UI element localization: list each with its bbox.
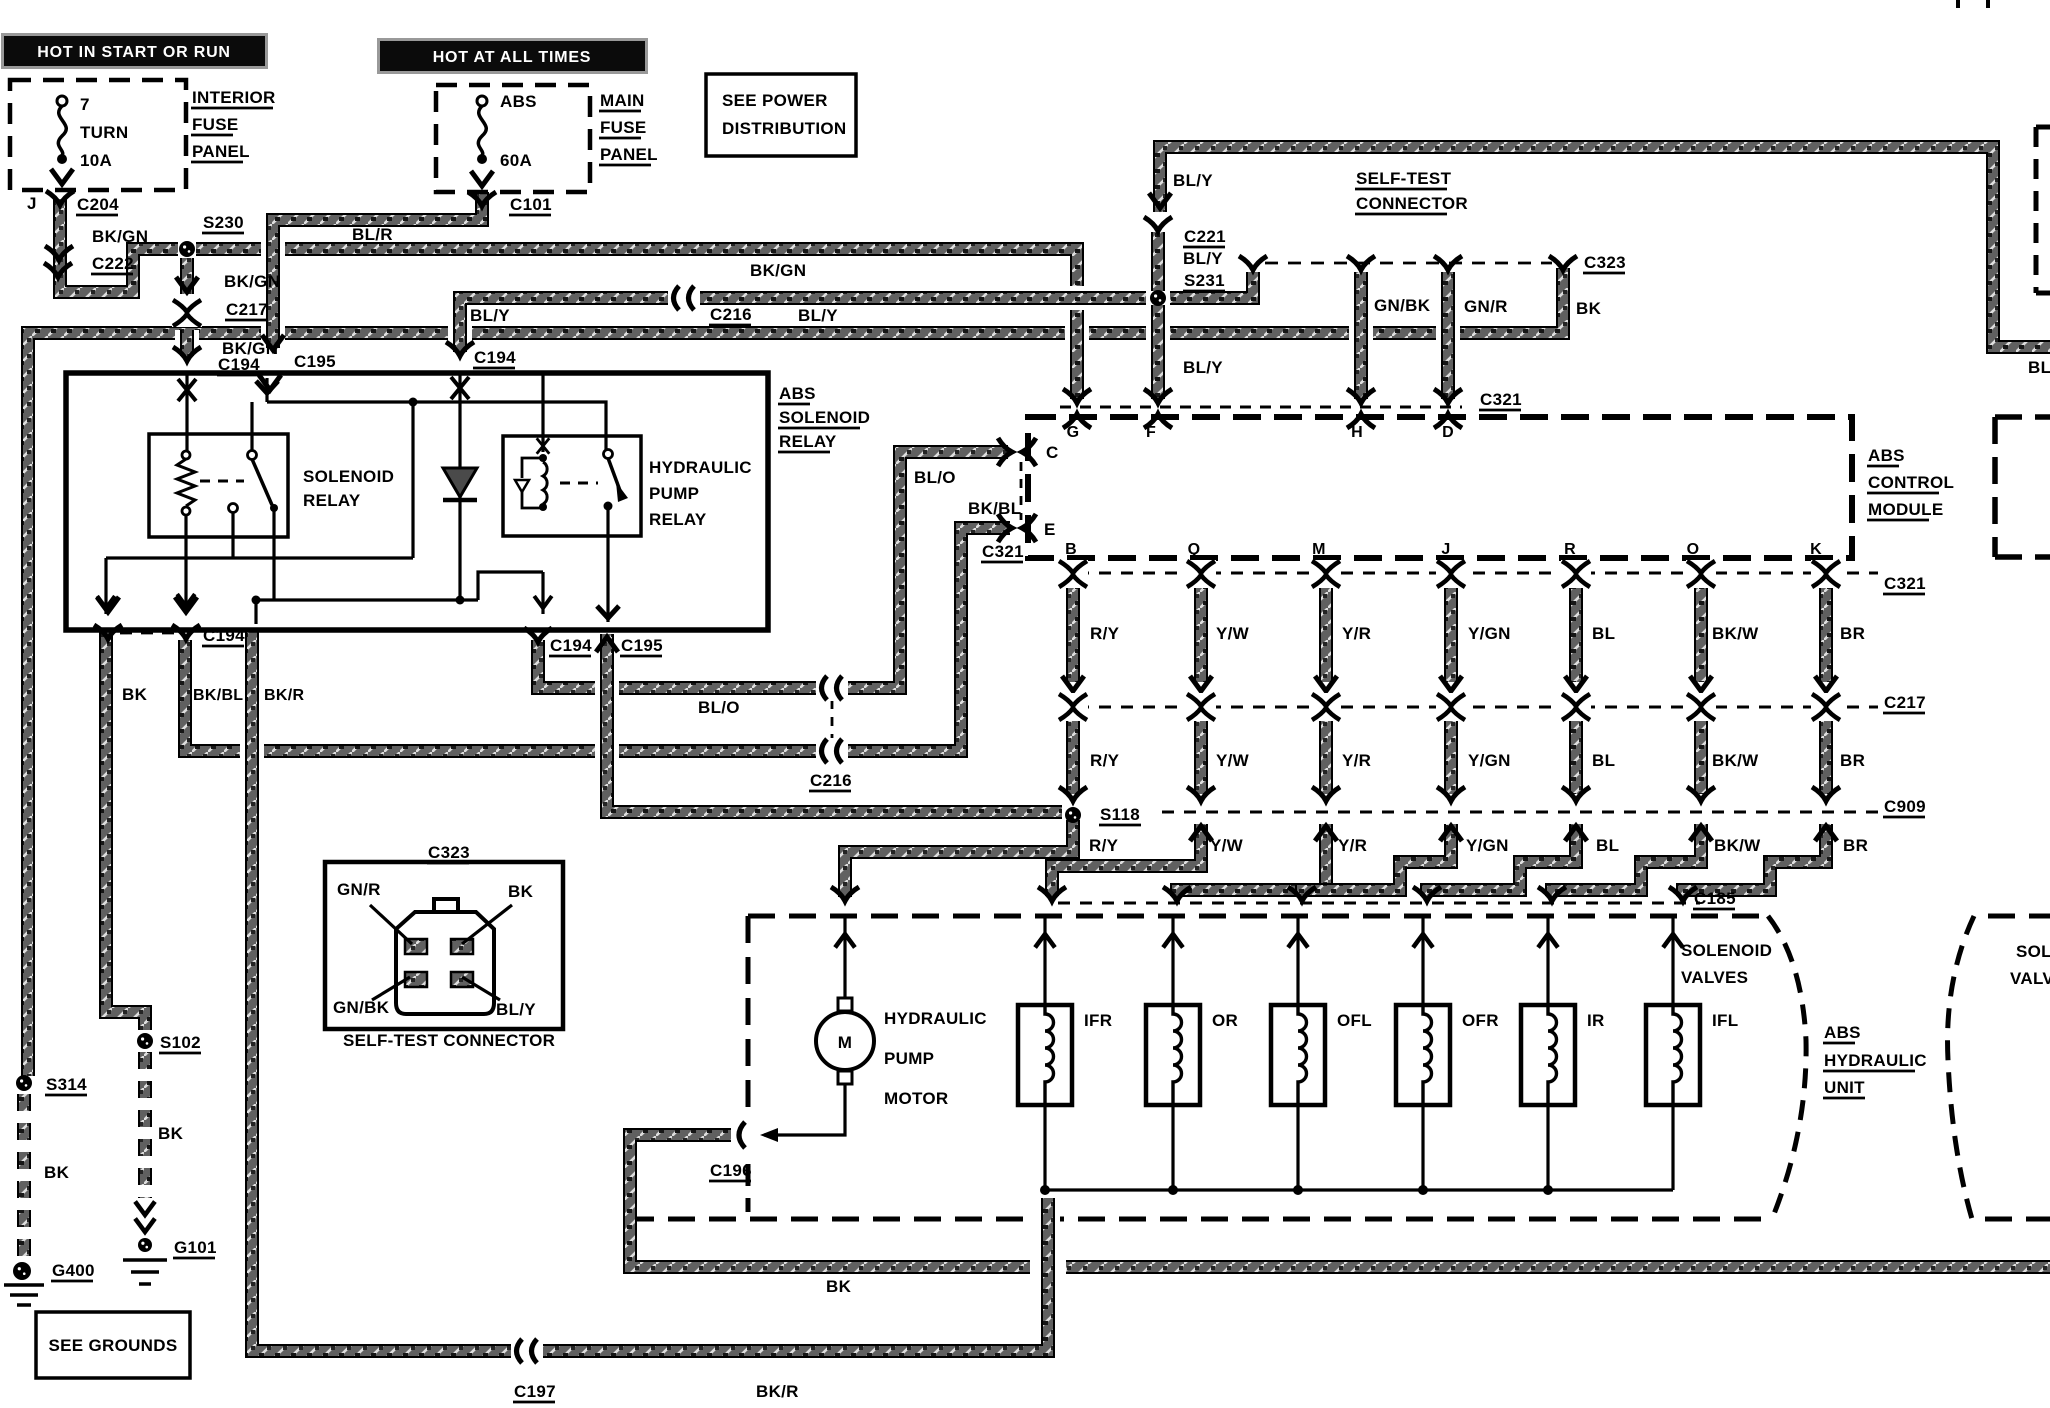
svg-text:SEE POWER: SEE POWER bbox=[722, 91, 828, 110]
svg-text:BL/Y: BL/Y bbox=[1183, 358, 1223, 377]
svg-text:C216: C216 bbox=[710, 305, 752, 324]
svg-text:S118: S118 bbox=[1100, 805, 1140, 824]
svg-text:C195: C195 bbox=[621, 636, 663, 655]
svg-text:C196: C196 bbox=[710, 1161, 752, 1180]
svg-text:10A: 10A bbox=[80, 151, 112, 170]
svg-text:DISTRIBUTION: DISTRIBUTION bbox=[722, 119, 846, 138]
svg-text:RELAY: RELAY bbox=[303, 491, 361, 510]
svg-text:OFR: OFR bbox=[1462, 1011, 1499, 1030]
svg-text:BL/O: BL/O bbox=[914, 468, 956, 487]
svg-text:BL: BL bbox=[1592, 751, 1615, 770]
svg-text:C222: C222 bbox=[92, 254, 134, 273]
svg-text:C197: C197 bbox=[514, 1382, 556, 1401]
svg-text:S231: S231 bbox=[1184, 271, 1225, 290]
svg-text:ABS: ABS bbox=[1824, 1023, 1861, 1042]
svg-text:H: H bbox=[1351, 424, 1363, 441]
svg-text:S102: S102 bbox=[160, 1033, 201, 1052]
svg-text:C: C bbox=[1046, 443, 1059, 462]
svg-text:HYDRAULIC: HYDRAULIC bbox=[649, 458, 752, 477]
svg-text:SELF-TEST: SELF-TEST bbox=[1356, 169, 1452, 188]
svg-text:C216: C216 bbox=[810, 771, 852, 790]
svg-text:C194: C194 bbox=[218, 355, 260, 374]
svg-text:FUSE: FUSE bbox=[192, 115, 239, 134]
svg-text:R/Y: R/Y bbox=[1090, 751, 1120, 770]
svg-text:C323: C323 bbox=[1584, 253, 1626, 272]
svg-text:C101: C101 bbox=[510, 195, 552, 214]
svg-text:SOLENOID: SOLENOID bbox=[2016, 942, 2050, 961]
svg-text:BK/R: BK/R bbox=[756, 1382, 799, 1401]
svg-text:BK/GN: BK/GN bbox=[750, 261, 806, 280]
svg-text:BK/BL: BK/BL bbox=[968, 499, 1021, 518]
svg-text:GN/R: GN/R bbox=[337, 880, 381, 899]
svg-text:GN/BK: GN/BK bbox=[333, 998, 390, 1017]
svg-text:C909: C909 bbox=[1884, 797, 1926, 816]
svg-text:OR: OR bbox=[1212, 1011, 1238, 1030]
svg-text:C323: C323 bbox=[428, 843, 470, 862]
svg-text:CONTROL: CONTROL bbox=[1868, 473, 1954, 492]
svg-text:Y/R: Y/R bbox=[1338, 836, 1367, 855]
svg-text:MODULE: MODULE bbox=[1868, 500, 1943, 519]
svg-text:R: R bbox=[1564, 541, 1576, 558]
svg-text:C321: C321 bbox=[982, 542, 1024, 561]
svg-text:Y/R: Y/R bbox=[1342, 751, 1371, 770]
svg-text:MOTOR: MOTOR bbox=[884, 1089, 948, 1108]
svg-text:HOT AT ALL TIMES: HOT AT ALL TIMES bbox=[433, 49, 592, 66]
svg-text:M: M bbox=[1312, 541, 1326, 558]
svg-text:HOT IN START OR RUN: HOT IN START OR RUN bbox=[37, 44, 231, 61]
svg-text:BK: BK bbox=[826, 1277, 852, 1296]
svg-text:Y/GN: Y/GN bbox=[1468, 624, 1511, 643]
svg-text:B: B bbox=[1065, 541, 1077, 558]
svg-text:C194: C194 bbox=[550, 636, 592, 655]
svg-text:BK/GN: BK/GN bbox=[92, 227, 148, 246]
svg-text:BK: BK bbox=[158, 1124, 184, 1143]
svg-text:SOLENOID: SOLENOID bbox=[779, 408, 870, 427]
svg-text:BL: BL bbox=[1596, 836, 1619, 855]
svg-text:BK: BK bbox=[508, 882, 534, 901]
svg-text:C221: C221 bbox=[1184, 227, 1226, 246]
svg-text:BL/Y: BL/Y bbox=[496, 1000, 536, 1019]
svg-text:C321: C321 bbox=[1884, 574, 1926, 593]
svg-text:BR: BR bbox=[1840, 624, 1865, 643]
svg-text:Y/R: Y/R bbox=[1342, 624, 1371, 643]
svg-text:PANEL: PANEL bbox=[192, 142, 250, 161]
svg-text:PUMP: PUMP bbox=[649, 484, 699, 503]
svg-text:IFR: IFR bbox=[1084, 1011, 1112, 1030]
svg-text:BL/Y: BL/Y bbox=[1173, 171, 1213, 190]
svg-text:BK/W: BK/W bbox=[1712, 624, 1759, 643]
svg-text:G: G bbox=[1067, 424, 1080, 441]
svg-text:PANEL: PANEL bbox=[600, 145, 658, 164]
svg-text:7: 7 bbox=[80, 95, 90, 114]
svg-text:BL/O: BL/O bbox=[698, 698, 740, 717]
svg-text:IFL: IFL bbox=[1712, 1011, 1738, 1030]
svg-text:Y/GN: Y/GN bbox=[1468, 751, 1511, 770]
svg-text:E: E bbox=[1044, 520, 1056, 539]
svg-text:UNIT: UNIT bbox=[1824, 1078, 1865, 1097]
svg-text:HYDRAULIC: HYDRAULIC bbox=[884, 1009, 987, 1028]
svg-text:G101: G101 bbox=[174, 1238, 217, 1257]
svg-text:C217: C217 bbox=[1884, 693, 1926, 712]
svg-text:MAIN: MAIN bbox=[600, 91, 645, 110]
svg-text:SOLENOID: SOLENOID bbox=[1681, 941, 1772, 960]
svg-text:SELF-TEST CONNECTOR: SELF-TEST CONNECTOR bbox=[343, 1031, 555, 1050]
svg-text:C204: C204 bbox=[77, 195, 119, 214]
svg-text:Y/W: Y/W bbox=[1216, 624, 1250, 643]
svg-text:BL/Y: BL/Y bbox=[798, 306, 838, 325]
svg-text:BL/Y: BL/Y bbox=[2028, 358, 2050, 377]
svg-text:BK/R: BK/R bbox=[264, 687, 304, 704]
svg-text:BK/W: BK/W bbox=[1714, 836, 1761, 855]
svg-text:BR: BR bbox=[1843, 836, 1868, 855]
svg-text:O: O bbox=[1687, 541, 1700, 558]
svg-text:J: J bbox=[27, 194, 37, 213]
svg-text:VALVES: VALVES bbox=[1681, 968, 1748, 987]
svg-text:HYDRAULIC: HYDRAULIC bbox=[1824, 1051, 1927, 1070]
svg-text:ABS: ABS bbox=[500, 92, 537, 111]
svg-text:Y/GN: Y/GN bbox=[1466, 836, 1509, 855]
svg-text:BR: BR bbox=[1840, 751, 1865, 770]
svg-text:J: J bbox=[1441, 541, 1450, 558]
svg-text:M: M bbox=[838, 1033, 852, 1052]
svg-text:C185: C185 bbox=[1694, 889, 1736, 908]
svg-text:CONNECTOR: CONNECTOR bbox=[1356, 194, 1468, 213]
svg-text:GN/BK: GN/BK bbox=[1374, 296, 1431, 315]
svg-text:VALVES: VALVES bbox=[2010, 969, 2050, 988]
svg-text:C195: C195 bbox=[294, 352, 336, 371]
svg-text:C194: C194 bbox=[203, 626, 245, 645]
svg-text:ABS: ABS bbox=[779, 384, 816, 403]
svg-text:F: F bbox=[1146, 424, 1156, 441]
svg-text:BK/GN: BK/GN bbox=[224, 272, 280, 291]
svg-text:BK: BK bbox=[44, 1163, 70, 1182]
svg-text:R/Y: R/Y bbox=[1089, 836, 1119, 855]
svg-text:OFL: OFL bbox=[1337, 1011, 1372, 1030]
svg-text:TURN: TURN bbox=[80, 123, 128, 142]
svg-text:60A: 60A bbox=[500, 151, 532, 170]
svg-text:SEE GROUNDS: SEE GROUNDS bbox=[49, 1336, 178, 1355]
svg-text:Y/W: Y/W bbox=[1210, 836, 1244, 855]
svg-text:BL/Y: BL/Y bbox=[1183, 249, 1223, 268]
svg-text:INTERIOR: INTERIOR bbox=[192, 88, 276, 107]
svg-text:D: D bbox=[1442, 424, 1454, 441]
svg-text:K: K bbox=[1810, 541, 1822, 558]
svg-text:Q: Q bbox=[1188, 541, 1201, 558]
svg-text:FUSE: FUSE bbox=[600, 118, 647, 137]
svg-text:BK/BL: BK/BL bbox=[193, 687, 243, 704]
svg-text:SOLENOID: SOLENOID bbox=[303, 467, 394, 486]
svg-text:R/Y: R/Y bbox=[1090, 624, 1120, 643]
svg-text:BK/W: BK/W bbox=[1712, 751, 1759, 770]
svg-text:BK: BK bbox=[1576, 299, 1602, 318]
svg-text:S230: S230 bbox=[203, 213, 244, 232]
svg-text:ABS: ABS bbox=[1868, 446, 1905, 465]
svg-text:S314: S314 bbox=[46, 1075, 87, 1094]
svg-text:IR: IR bbox=[1587, 1011, 1605, 1030]
svg-text:BL/Y: BL/Y bbox=[470, 306, 510, 325]
svg-text:BK: BK bbox=[122, 685, 148, 704]
svg-text:G400: G400 bbox=[52, 1261, 95, 1280]
svg-text:BL: BL bbox=[1592, 624, 1615, 643]
svg-text:BL/R: BL/R bbox=[352, 225, 393, 244]
svg-text:C194: C194 bbox=[474, 348, 516, 367]
svg-text:GN/R: GN/R bbox=[1464, 297, 1508, 316]
svg-text:PUMP: PUMP bbox=[884, 1049, 934, 1068]
svg-text:RELAY: RELAY bbox=[649, 510, 707, 529]
svg-text:C321: C321 bbox=[1480, 390, 1522, 409]
svg-text:RELAY: RELAY bbox=[779, 432, 837, 451]
svg-text:Y/W: Y/W bbox=[1216, 751, 1250, 770]
svg-text:C217: C217 bbox=[226, 300, 268, 319]
